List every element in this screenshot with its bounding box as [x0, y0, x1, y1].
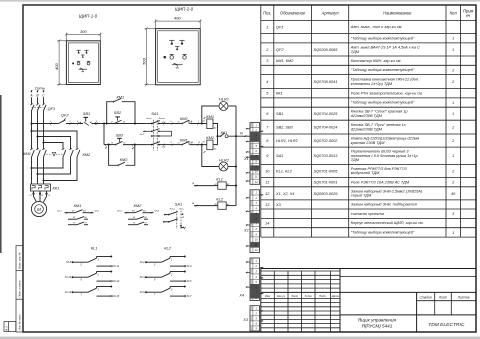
svg-text:Кол: Кол: [450, 11, 458, 16]
svg-text:SQ0708-0041: SQ0708-0041: [314, 80, 338, 84]
svg-text:Контактор КМН, хар-ки см.: Контактор КМН, хар-ки см.: [351, 59, 402, 63]
svg-text:КМ2: КМ2: [134, 203, 143, 208]
svg-text:КL2: КL2: [216, 197, 223, 202]
terminal block X4: [250, 258, 260, 301]
svg-text:Х4-3: Х4-3: [186, 265, 193, 268]
svg-text:Листов: Листов: [457, 296, 470, 300]
svg-text:TDM ELECTRIC: TDM ELECTRIC: [428, 322, 465, 328]
svg-text:Впер.: Впер.: [179, 209, 184, 211]
SA1 middle contact pair loop: [143, 129, 172, 136]
svg-text:Обозначение: Обозначение: [280, 11, 306, 16]
svg-text:Поз.: Поз.: [263, 11, 271, 16]
svg-text:КМ2: КМ2: [83, 152, 92, 157]
svg-text:Х2-13: Х2-13: [112, 281, 120, 283]
svg-text:А1: А1: [202, 141, 205, 144]
phase wires L1 L2 L3 verticals: [31, 90, 33, 92]
svg-text:4: 4: [105, 144, 106, 147]
svg-text:d22мм/230В ТДМ: d22мм/230В ТДМ: [351, 114, 383, 118]
motor M: [31, 201, 46, 216]
svg-text:SQ0702-0002: SQ0702-0002: [314, 139, 339, 143]
svg-text:ЩИП-2-0: ЩИП-2-0: [175, 7, 194, 12]
svg-text:Стадия: Стадия: [420, 296, 432, 300]
svg-text:Реле РЭК77/3 10А 230В АС ТДМ: Реле РЭК77/3 10А 230В АС ТДМ: [351, 180, 410, 184]
lamp HLR1: [201, 122, 203, 124]
svg-text:HLR1, HLR2: HLR1, HLR2: [276, 139, 299, 143]
reversing cross-over wires to KM2: [32, 131, 78, 148]
svg-text:Х2-2: Х2-2: [93, 211, 99, 213]
svg-text:11: 11: [198, 142, 200, 144]
svg-text:Реле РТН электротепловое, хар-: Реле РТН электротепловое, хар-ки см.: [351, 91, 423, 95]
svg-text:Взам. инв. №: Взам. инв. №: [18, 252, 22, 269]
svg-text:Х2-16: Х2-16: [64, 292, 72, 294]
svg-text:КМ1: КМ1: [117, 94, 125, 99]
selector switch SA1 lower contact: [147, 142, 170, 145]
control rail from QF2: [32, 120, 147, 124]
svg-text:красная 230В ТДМ: красная 230В ТДМ: [351, 141, 385, 145]
branch node to lower rail: [103, 122, 105, 124]
svg-text:КМ1, КМ2: КМ1, КМ2: [276, 59, 294, 63]
svg-text:QF2: QF2: [61, 113, 69, 118]
svg-text:Дата: Дата: [331, 294, 340, 298]
svg-text:Х4-5: Х4-5: [186, 280, 193, 283]
svg-text:Х2-11: Х2-11: [112, 266, 120, 268]
svg-text:SQ0703-0013: SQ0703-0013: [314, 154, 339, 158]
svg-text:Х2-4: Х2-4: [139, 133, 144, 136]
svg-text:А2: А2: [213, 127, 216, 130]
svg-text:11: 11: [265, 181, 269, 185]
svg-text:Х2-3: Х2-3: [116, 211, 122, 213]
contactor KM1 NC interlock contact: [170, 141, 207, 146]
contactor KM2 main contacts: [62, 148, 80, 158]
svg-text:Лист: Лист: [290, 294, 299, 298]
node tap to control circuit: [30, 122, 32, 124]
svg-text:Авт. выкл., тип и хар-ки см.: Авт. выкл., тип и хар-ки см.: [350, 25, 403, 29]
svg-text:Х4-2: Х4-2: [139, 261, 146, 264]
svg-text:Ящик управления: Ящик управления: [357, 318, 396, 323]
svg-text:SQ0803-0029: SQ0803-0029: [314, 192, 339, 196]
KM1 self-latch branch with SB2: [107, 99, 135, 124]
phase labels A B C: [29, 93, 45, 97]
svg-text:14: 14: [123, 120, 125, 123]
push button SB1 stop: [84, 117, 89, 125]
svg-text:1: 1: [266, 25, 268, 29]
contactor KM1 main contacts: [30, 148, 46, 158]
svg-text:Х2-15: Х2-15: [112, 296, 120, 298]
svg-text:А2: А2: [226, 203, 229, 206]
svg-text:КМ1: КМ1: [74, 203, 82, 208]
right return bus: [235, 106, 237, 206]
svg-text:Наименование: Наименование: [383, 11, 412, 16]
svg-text:“Таблицу выбора комплектующей”: “Таблицу выбора комплектующей”: [351, 68, 415, 72]
svg-text:Сеть: Сеть: [35, 86, 45, 91]
svg-text:QF1: QF1: [276, 25, 283, 29]
svg-text:Х3: Х3: [275, 203, 282, 207]
svg-text:Х4-4: Х4-4: [139, 276, 146, 279]
panel SCHIP-2-0 outline: [156, 29, 201, 85]
svg-text:КК1: КК1: [276, 92, 283, 96]
motor leads: [34, 191, 47, 202]
svg-text:ТДМ: ТДМ: [351, 158, 360, 162]
svg-text:“Таблицу выбора комплектующей”: “Таблицу выбора комплектующей”: [351, 101, 415, 105]
svg-text:С3: С3: [48, 195, 50, 197]
sheet bottom edge shadow: [0, 337, 480, 339]
mechanical interlock symbol: [52, 152, 55, 156]
svg-text:А1: А1: [214, 183, 217, 186]
svg-text:С2: С2: [41, 195, 43, 197]
svg-text:Назад: Назад: [146, 117, 151, 120]
lower control rail: [104, 141, 147, 145]
terminal strip connection stubs: [246, 129, 250, 287]
svg-text:Я(РУСМ) 5441: Я(РУСМ) 5441: [361, 324, 393, 329]
svg-text:Авт. выкл.ВА47-29 1Р 1А 4,5кА: Авт. выкл.ВА47-29 1Р 1А 4,5кА х-ка С: [350, 46, 420, 50]
svg-text:КМ1: КМ1: [180, 137, 188, 142]
svg-text:SB2: SB2: [114, 110, 122, 115]
svg-text:400: 400: [174, 16, 181, 21]
svg-text:SB1: SB1: [276, 112, 283, 116]
phase wires to thermal relay: [32, 157, 46, 184]
svg-text:Х2: Х2: [243, 229, 250, 233]
push button SB3 start reverse: [117, 138, 122, 142]
svg-text:14: 14: [123, 141, 125, 144]
svg-text:А1: А1: [214, 203, 217, 206]
svg-text:Х2-8: Х2-8: [65, 262, 72, 264]
panel 1 dimensions: [57, 33, 102, 86]
svg-text:КМ1: КМ1: [206, 114, 214, 119]
svg-text:ТДМ: ТДМ: [351, 50, 360, 54]
svg-text:КL1: КL1: [91, 245, 98, 250]
svg-text:Подп.: Подп.: [319, 294, 326, 298]
coil KM2: [207, 140, 213, 150]
svg-text:КМ2: КМ2: [120, 157, 129, 162]
panel SCHIP-1-0 outline: [66, 41, 100, 85]
svg-text:А2: А2: [213, 148, 216, 151]
svg-text:ЩИП-1-0: ЩИП-1-0: [79, 14, 98, 19]
svg-text:Инв. № подл.: Инв. № подл.: [18, 314, 22, 331]
sheet top edge shadow: [0, 0, 480, 2]
svg-text:Назад: Назад: [170, 208, 175, 211]
parts table body text: [265, 25, 456, 235]
svg-text:КК1: КК1: [221, 130, 228, 135]
svg-text:“Таблицу выбора комплектующей”: “Таблицу выбора комплектующей”: [351, 36, 415, 40]
svg-text:1: 1: [452, 231, 454, 235]
panel 2 dimensions: [145, 20, 202, 87]
svg-text:SB3: SB3: [116, 133, 124, 138]
svg-text:400: 400: [54, 62, 59, 69]
circuit breaker QF1: [30, 104, 46, 111]
svg-text:HLR2: HLR2: [219, 158, 230, 163]
svg-text:КL1: КL1: [216, 177, 223, 182]
svg-text:SQ0704-0024: SQ0704-0024: [314, 126, 338, 130]
terminal strip labels: [238, 157, 249, 322]
svg-text:согласно проекта: согласно проекта: [351, 212, 384, 216]
svg-text:контакты 2з+2р) ТДМ: контакты 2з+2р) ТДМ: [351, 82, 393, 86]
svg-text:Х3: Х3: [242, 318, 249, 322]
coil KM1: [207, 119, 213, 129]
relay coil KL1: [218, 182, 226, 189]
svg-text:21: 21: [177, 143, 180, 145]
contactor KM2 NC interlock contact: [170, 120, 207, 125]
svg-text:Х2-4: Х2-4: [153, 210, 159, 213]
svg-text:1: 1: [452, 101, 454, 105]
svg-text:Кол.уч: Кол.уч: [277, 294, 286, 298]
svg-text:Х4: Х4: [238, 293, 244, 297]
thermal relay KK1: [31, 184, 51, 191]
title block texts: [265, 294, 339, 298]
svg-text:серый ТДМ: серый ТДМ: [351, 194, 372, 198]
title block: [261, 269, 476, 333]
svg-text:КМ2: КМ2: [180, 116, 189, 121]
svg-text:4: 4: [266, 80, 268, 84]
svg-text:24: 24: [191, 202, 194, 205]
svg-text:1: 1: [452, 154, 454, 158]
svg-text:SB2, SB3: SB2, SB3: [276, 126, 294, 130]
left margin rotated labels: [6, 252, 22, 331]
svg-text:SA1: SA1: [175, 202, 182, 207]
svg-text:Х2-12: Х2-12: [64, 277, 72, 279]
svg-text:SQ0704-0025: SQ0704-0025: [314, 112, 339, 116]
svg-text:“Таблицу выбора комплектующей”: “Таблицу выбора комплектующей”: [351, 231, 415, 235]
parts table header text: [263, 9, 473, 19]
KM2 output return wires: [32, 157, 78, 181]
svg-text:300: 300: [80, 29, 87, 34]
svg-text:КК1: КК1: [53, 185, 60, 190]
panel 1 device pictograms: [72, 50, 90, 71]
svg-text:1: 1: [50, 121, 51, 123]
wire coil KM2 to node N: [213, 136, 218, 144]
svg-text:Х4-6: Х4-6: [139, 291, 146, 294]
svg-text:1: 1: [452, 48, 454, 52]
svg-text:Артикул: Артикул: [321, 11, 340, 16]
svg-text:Х2-6: Х2-6: [161, 147, 166, 149]
thermal relay KK1 trip contact: [220, 133, 251, 138]
svg-text:21: 21: [177, 122, 180, 124]
svg-text:N док: N док: [305, 294, 313, 298]
svg-text:500: 500: [141, 57, 146, 64]
svg-text:N: N: [240, 132, 243, 136]
svg-text:Подп. и дата: Подп. и дата: [18, 280, 22, 297]
svg-text:14: 14: [265, 222, 269, 226]
svg-text:d22мм/230В ТДМ: d22мм/230В ТДМ: [351, 127, 383, 131]
svg-text:SB1: SB1: [83, 111, 90, 116]
svg-text:Ф. А: Ф. А: [6, 326, 9, 331]
lamp HLR2: [201, 144, 203, 146]
svg-text:положения I-0-II длинная ручка: положения I-0-II длинная ручка 1з+1р: [351, 154, 419, 158]
svg-text:Х4-7: Х4-7: [186, 295, 193, 298]
terminal block X1: [250, 123, 260, 185]
svg-text:SQ0206-0065: SQ0206-0065: [314, 48, 339, 52]
terminal block X3: [250, 306, 260, 331]
svg-text:КМ1: КМ1: [23, 151, 31, 156]
svg-text:14: 14: [192, 182, 194, 185]
svg-text:HLR1: HLR1: [219, 96, 229, 101]
wire coil KM1 to KK1 contact: [213, 124, 220, 137]
svg-text:Корпус металлический ЩМП, хар-: Корпус металлический ЩМП, хар-ки см.: [351, 221, 424, 225]
panel 2 device pictograms: [163, 40, 186, 68]
svg-text:Зажим наборный ЗНИ, подбираетс: Зажим наборный ЗНИ, подбирается: [351, 203, 417, 207]
svg-text:КМ2: КМ2: [206, 135, 215, 140]
push button SB2 start: [114, 117, 122, 124]
svg-text:С1: С1: [29, 195, 31, 197]
svg-text:Х1, Х2, Х4: Х1, Х2, Х4: [275, 192, 294, 196]
svg-text:QF2: QF2: [276, 48, 284, 52]
svg-text:модульной ТДМ: модульной ТДМ: [351, 171, 380, 175]
svg-text:13: 13: [111, 142, 113, 144]
svg-text:КL2: КL2: [164, 245, 171, 250]
svg-text:QF1: QF1: [48, 106, 56, 111]
svg-text:Вперед: Вперед: [159, 117, 165, 120]
wire number labels: [50, 121, 200, 148]
parts table grid: [261, 5, 476, 237]
left margin graph boxes: [4, 246, 23, 332]
svg-text:А2: А2: [226, 183, 229, 186]
svg-text:Изм: Изм: [265, 294, 270, 298]
svg-text:Лист: Лист: [438, 296, 448, 300]
svg-text:Х2-1: Х2-1: [56, 211, 62, 213]
svg-text:1: 1: [452, 37, 454, 41]
svg-text:KL1, KL2: KL1, KL2: [276, 169, 293, 173]
sheet left edge line: [0, 95, 2, 253]
svg-text:М: М: [37, 207, 41, 212]
KM2 self-latch branch: [109, 145, 135, 167]
svg-text:SQ0701-0001: SQ0701-0001: [314, 181, 338, 185]
svg-text:13: 13: [111, 121, 113, 123]
terminal block X2: [250, 190, 260, 253]
svg-text:1: 1: [452, 112, 454, 116]
title block doc name: [357, 318, 465, 329]
svg-text:SA1: SA1: [276, 154, 283, 158]
relay coil KL2: [218, 202, 226, 209]
svg-text:SA1: SA1: [151, 111, 158, 116]
svg-text:SQ0701-0005: SQ0701-0005: [314, 169, 339, 173]
